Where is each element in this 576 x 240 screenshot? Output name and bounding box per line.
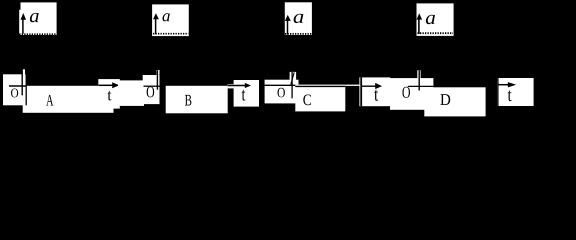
a-axis arrow D	[417, 13, 423, 34]
vertical axis line A	[21, 69, 23, 95]
vertical axis line C	[291, 72, 293, 98]
axis tab C	[290, 72, 297, 80]
vertical axis line B	[156, 70, 158, 90]
slanted axis mark C	[291, 72, 294, 84]
a-axis label box A	[19, 2, 56, 35]
label t (graph B)	[242, 90, 246, 101]
label a (graph A)	[30, 13, 39, 22]
left border line of t box D	[497, 78, 499, 106]
label A	[46, 95, 53, 106]
origin box D	[390, 78, 433, 110]
vertical axis line D	[418, 70, 420, 90]
axis tab A	[22, 69, 25, 74]
option letter box D	[424, 87, 485, 116]
option letter box B	[166, 86, 228, 114]
t-axis line over letter box C	[295, 85, 345, 87]
a-axis label box C	[285, 2, 312, 35]
origin box C	[265, 80, 299, 104]
option letter box A	[23, 86, 114, 113]
origin box A	[3, 74, 26, 105]
a-axis label box D	[417, 3, 454, 36]
label O (graph A)	[11, 89, 18, 98]
label O (graph D)	[402, 87, 410, 98]
axis bridge B	[228, 84, 234, 88]
t-axis line over origin box A	[9, 85, 27, 87]
t-axis arrow B	[228, 83, 251, 88]
a-axis label box B	[152, 4, 189, 36]
t-axis arrow A	[99, 82, 120, 88]
t-axis arrow D	[498, 82, 516, 87]
left border line of t box C	[360, 77, 362, 106]
label O (graph C)	[278, 88, 285, 98]
a-axis arrow A	[21, 13, 27, 34]
t-axis line over origin box C	[265, 84, 307, 86]
t-axis label box B	[234, 80, 259, 107]
label t (graph D)	[508, 90, 512, 101]
t-axis line over origin box D	[408, 85, 434, 87]
a-axis arrow C	[285, 15, 291, 35]
wire second vertical line A	[25, 69, 27, 105]
axis tab D	[417, 70, 420, 78]
a-axis arrow B	[153, 13, 159, 34]
t-axis arrow C	[362, 83, 382, 89]
t-axis label box D	[497, 78, 533, 106]
label D	[440, 94, 450, 105]
label a (graph B)	[163, 13, 170, 21]
label O (graph B)	[147, 87, 155, 98]
junction panel between A and B	[118, 80, 144, 106]
option letter box C	[295, 85, 345, 112]
label t (graph C)	[374, 90, 378, 101]
label a (graph C)	[294, 14, 304, 23]
label B	[185, 95, 192, 106]
label a (graph D)	[426, 15, 435, 24]
axis tab B	[156, 70, 159, 75]
t-axis label box C	[359, 77, 390, 106]
t-axis line over origin box B	[144, 85, 160, 87]
origin box B	[143, 75, 160, 104]
label t (graph A)	[108, 91, 112, 100]
t-axis label box A	[98, 79, 120, 109]
label C	[303, 95, 311, 106]
axis bridge C	[345, 85, 360, 86]
